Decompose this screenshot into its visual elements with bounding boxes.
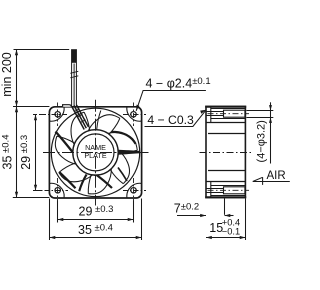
corner ear arc bottom-left xyxy=(50,183,65,197)
lead wire band into hub xyxy=(72,105,89,130)
mounting hole top-left xyxy=(55,112,60,117)
35 left dimension line xyxy=(16,107,18,198)
front view frame xyxy=(49,107,141,198)
top flange bottom line xyxy=(206,122,245,124)
AIR arrow xyxy=(253,181,290,183)
wire black tip xyxy=(71,49,76,63)
phi3.2 dimension line w/ outside arrows xyxy=(270,102,272,163)
blade thick trailing 5 o'clock xyxy=(97,175,113,188)
svg-text:PLATE: PLATE xyxy=(84,151,106,160)
svg-text:min 200: min 200 xyxy=(0,52,14,97)
7 dimension xyxy=(224,199,226,215)
svg-text:7±0.2: 7±0.2 xyxy=(174,202,199,216)
hole centerlines xyxy=(34,103,146,202)
wire break marks xyxy=(70,71,78,78)
hub centerline dark dash xyxy=(94,173,97,176)
impeller blades xyxy=(55,112,137,194)
svg-text:(4−φ3.2): (4−φ3.2) xyxy=(256,120,268,162)
bottom hole boss lines xyxy=(206,186,245,196)
corner ear arc top-left xyxy=(50,107,65,121)
svg-text:4 − C0.3: 4 − C0.3 xyxy=(147,113,194,127)
blade thick leading edge 1-2 o'clock xyxy=(112,132,136,144)
svg-text:−0.1: −0.1 xyxy=(222,226,240,236)
side view inner vertical line bottom flange xyxy=(210,182,212,198)
hub inner circle xyxy=(77,134,114,171)
29 left extension (dash-dot through holes) xyxy=(33,114,42,116)
lead wire going up xyxy=(72,49,77,106)
bottom venturi line xyxy=(208,170,245,172)
corner ear arc bottom-right xyxy=(127,183,142,197)
main centerlines xyxy=(43,100,149,206)
side view horizontal centerline xyxy=(200,152,252,154)
svg-text:29 ±0.3: 29 ±0.3 xyxy=(79,204,114,218)
blade edge-on wedge 3 o'clock xyxy=(119,150,140,155)
mounting hole top-right xyxy=(131,112,136,117)
blade thick trailing edge 7 o'clock xyxy=(79,175,86,192)
wire band ladder ticks xyxy=(75,109,86,123)
side view inner vertical line top flange xyxy=(210,106,212,122)
svg-text:AIR: AIR xyxy=(267,170,286,182)
label 4-C0.3 underline + leader xyxy=(145,110,207,127)
29 bottom extension lines xyxy=(57,201,59,223)
blade thick edge 9-10 o'clock xyxy=(56,132,73,153)
wire guide tab on top edge xyxy=(63,105,72,107)
svg-text:35 ±0.4: 35 ±0.4 xyxy=(78,223,113,237)
venturi opening circle xyxy=(51,108,139,196)
svg-text:4 − φ2.4±0.1: 4 − φ2.4±0.1 xyxy=(146,76,211,91)
mounting hole bottom-left xyxy=(55,188,60,193)
35 left extension lines xyxy=(13,106,49,108)
mounting hole bottom-right xyxy=(131,188,136,193)
blade edge 12 o'clock xyxy=(97,111,101,130)
35 bottom extension lines xyxy=(49,199,51,241)
blade thick rim edge 8 o'clock xyxy=(59,172,75,188)
svg-text:35 ±0.4: 35 ±0.4 xyxy=(1,135,15,170)
top venturi line xyxy=(208,133,245,135)
svg-text:29 ±0.3: 29 ±0.3 xyxy=(19,135,33,170)
top hole boss lines xyxy=(206,109,245,119)
29 left dimension line xyxy=(35,115,37,191)
label 4-phi2.4 underline + leader xyxy=(136,91,206,111)
min200 extension line xyxy=(14,49,70,51)
bottom flange top line xyxy=(206,181,245,183)
phi3.2 extension lines xyxy=(246,110,273,112)
29 bottom dimension line xyxy=(58,219,134,221)
blade edge 4 o'clock xyxy=(118,168,127,182)
side view outline xyxy=(206,107,245,198)
NAME PLATE text xyxy=(84,143,106,160)
top hole centerline xyxy=(208,113,250,115)
15 dimension xyxy=(245,199,247,241)
corner ear arc top-right xyxy=(127,107,142,121)
35 bottom dimension line xyxy=(50,237,142,239)
bottom hole centerline xyxy=(208,189,250,191)
hub outer circle xyxy=(73,130,118,175)
min200 dimension line xyxy=(16,50,18,107)
